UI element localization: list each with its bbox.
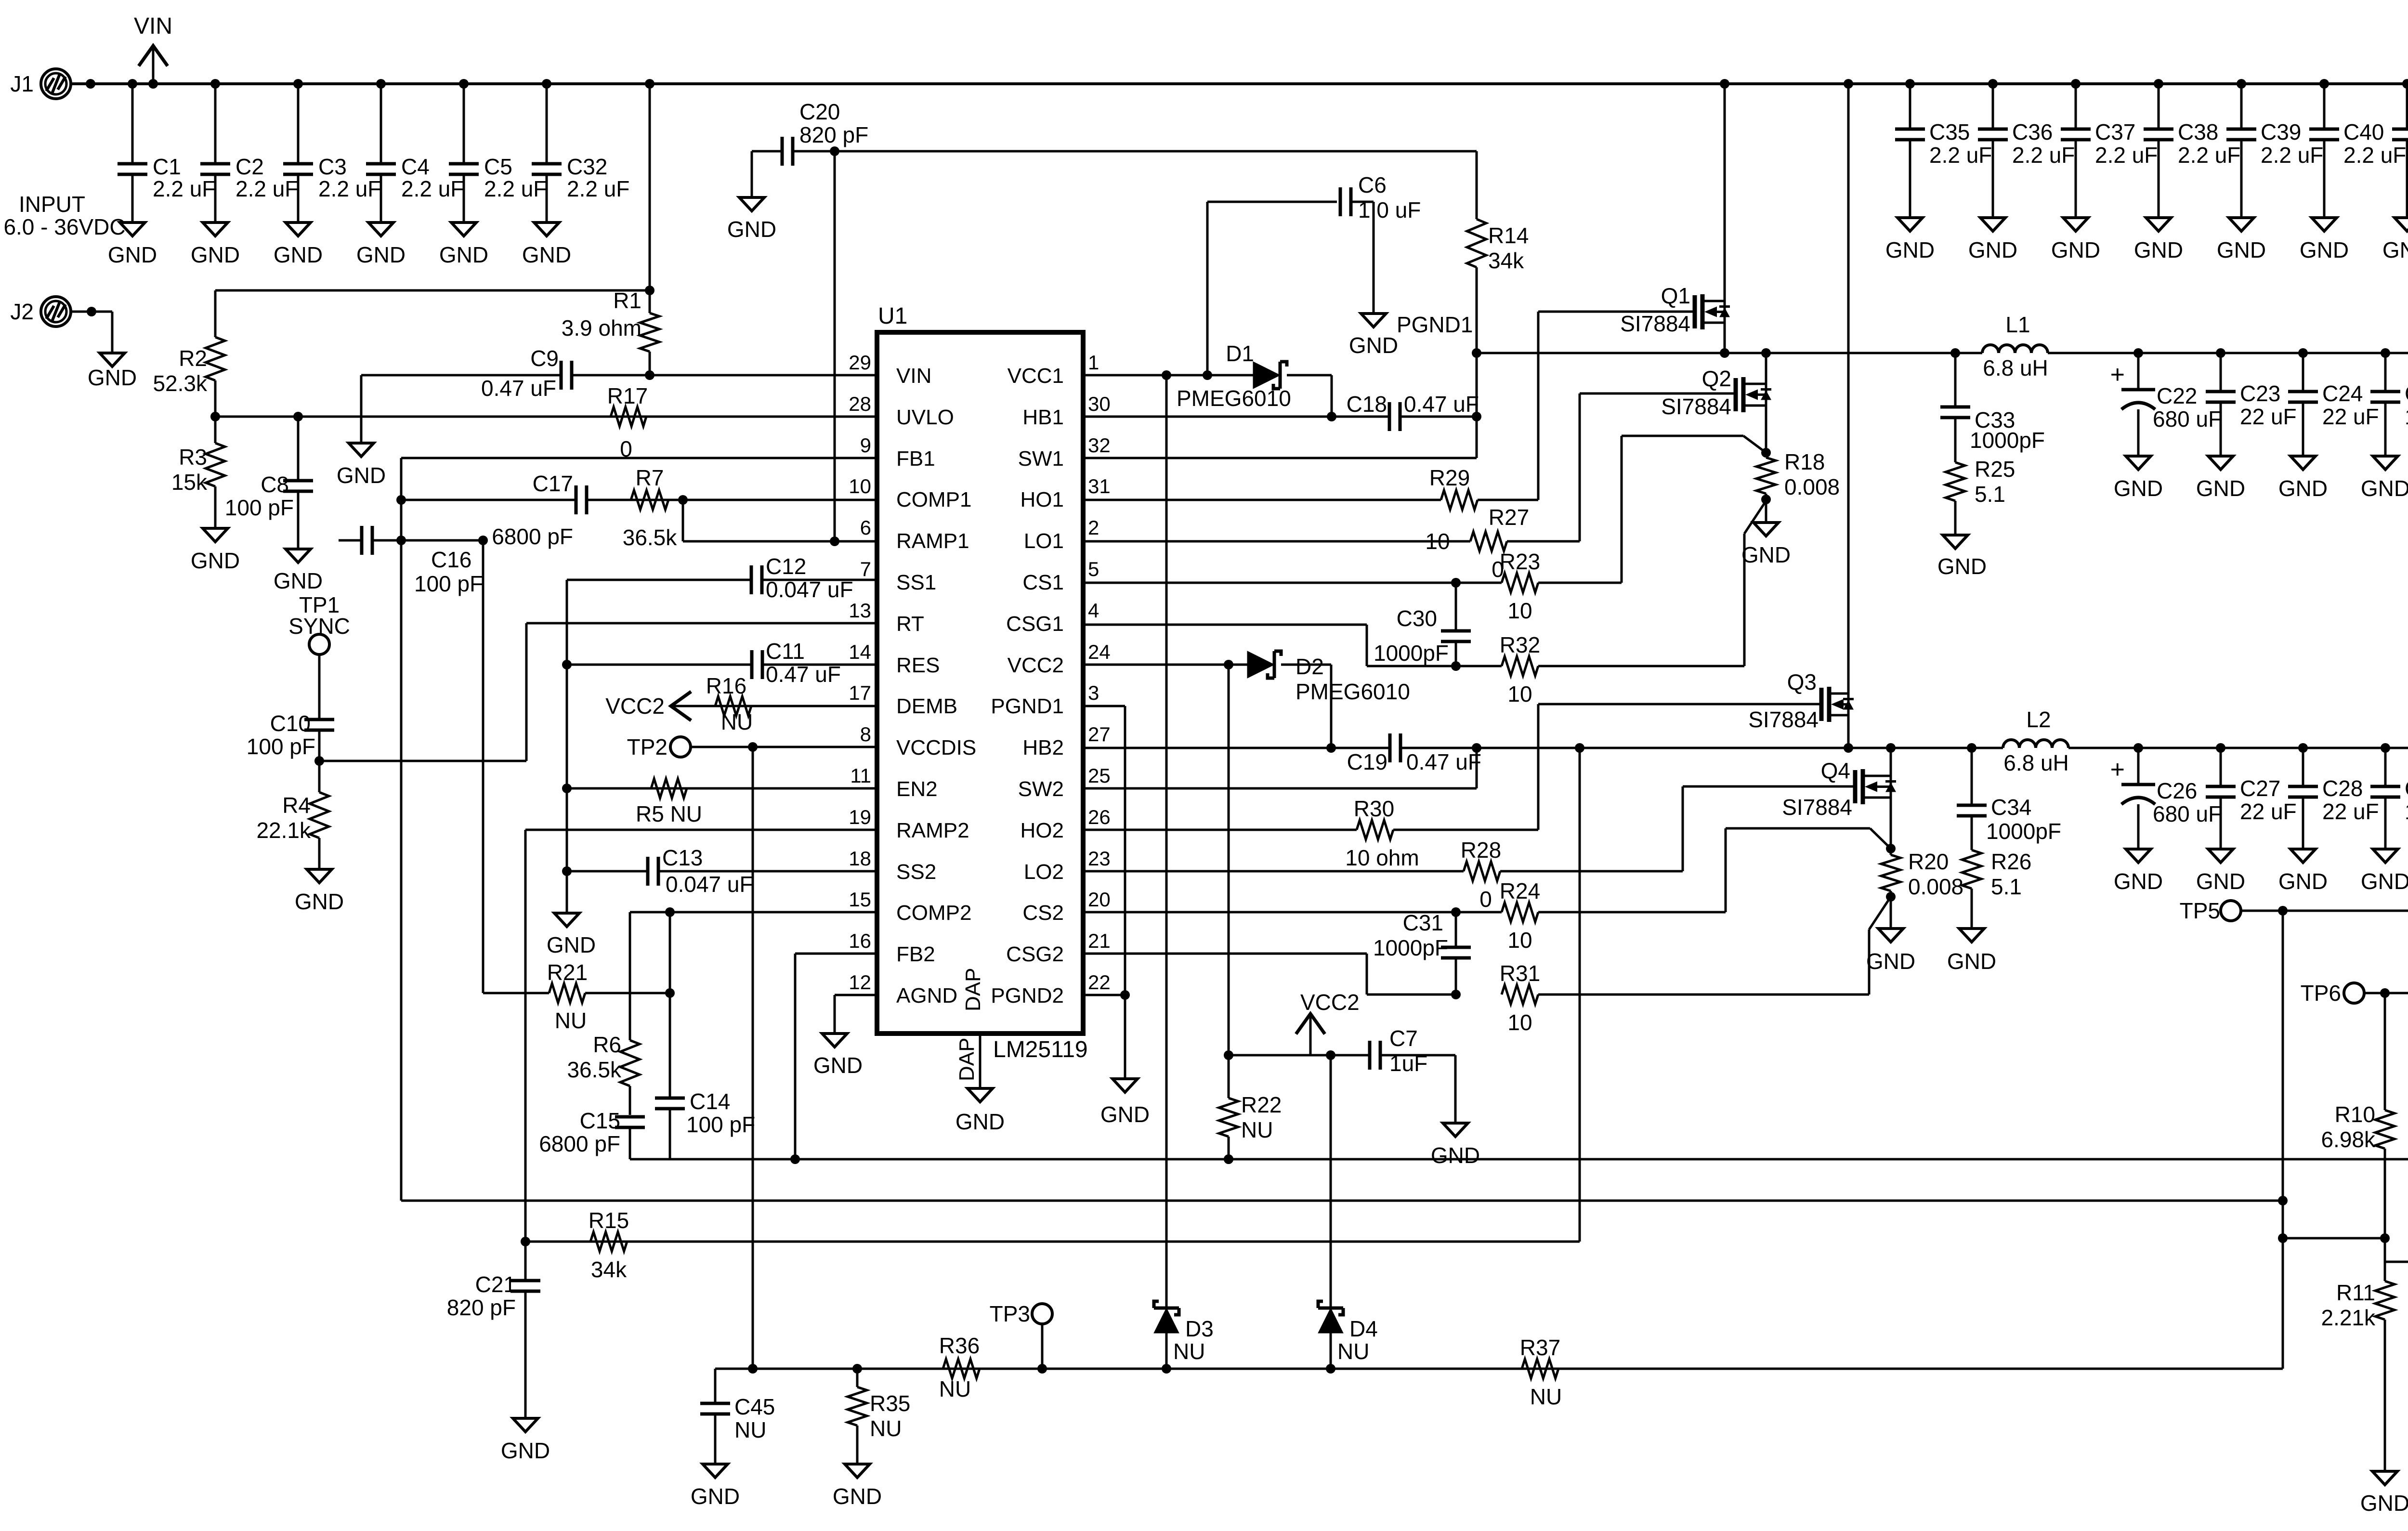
node C8 junction	[293, 412, 303, 421]
ground under C21	[501, 1418, 550, 1463]
node R14 bottom on SW1 node	[1472, 348, 1481, 358]
wire C23 lower	[2220, 402, 2222, 456]
svg-text:29: 29	[849, 351, 871, 374]
node TP2 drop bottom	[748, 1364, 758, 1374]
svg-text:GND: GND	[274, 242, 323, 267]
node SS2 on gnd rail	[562, 866, 572, 876]
svg-text:HB2: HB2	[1022, 736, 1064, 759]
svg-text:FB2: FB2	[896, 942, 935, 966]
svg-text:6.98k: 6.98k	[2321, 1127, 2376, 1152]
svg-text:680 uF: 680 uF	[2153, 801, 2222, 826]
svg-text:NU: NU	[734, 1417, 766, 1442]
resistor R23 10	[1500, 549, 1540, 623]
wire C16 line	[339, 539, 483, 542]
ground under R25	[1937, 535, 1987, 579]
wire C27 lower	[2220, 797, 2222, 849]
ground under C27	[2196, 849, 2245, 894]
svg-text:C38: C38	[2178, 119, 2218, 144]
wire CSG2 to R20 bottom	[1538, 897, 1891, 994]
node SW1 node C33	[1950, 348, 1960, 358]
svg-text:U1: U1	[878, 303, 907, 329]
svg-text:INPUT: INPUT	[19, 192, 85, 217]
ground under R35	[833, 1464, 882, 1509]
svg-text:C23: C23	[2240, 381, 2280, 406]
svg-text:26: 26	[1088, 806, 1111, 828]
wire Q2 drain	[1765, 353, 1767, 384]
svg-text:AGND: AGND	[896, 984, 957, 1008]
wire lineC ramp2 net	[525, 1241, 1580, 1243]
svg-text:C35: C35	[1929, 119, 1970, 144]
svg-text:18: 18	[849, 847, 871, 870]
wire C36 upper	[1992, 84, 1994, 129]
svg-text:3: 3	[1088, 681, 1099, 704]
transistor Q3 SI7884	[1748, 669, 1854, 732]
wire lineA FB2 net	[630, 1158, 2408, 1161]
svg-text:6.8 uH: 6.8 uH	[2003, 750, 2069, 775]
resistor R1 3.9 ohm	[562, 288, 659, 375]
wire RAMP2 drop	[524, 830, 527, 1242]
svg-text:2.21k: 2.21k	[2321, 1305, 2376, 1330]
wire C9 gnd stub	[360, 375, 363, 443]
svg-text:10: 10	[1507, 681, 1532, 707]
svg-text:GND: GND	[813, 1053, 863, 1078]
wire C22 lower	[2137, 409, 2140, 456]
node R20 top	[1886, 844, 1896, 853]
wire C32 lower lead	[546, 174, 548, 222]
ground PGND1 under C6	[1349, 312, 1473, 358]
node Q1 drain bus	[1720, 79, 1729, 89]
node R10 R11 joint	[2380, 1233, 2390, 1243]
resistor R15 34k	[589, 1208, 629, 1282]
svg-text:31: 31	[1088, 475, 1111, 497]
wire C39 lower	[2240, 140, 2243, 218]
node C3 top	[293, 79, 303, 89]
svg-text:VIN: VIN	[134, 13, 172, 39]
svg-text:C3: C3	[318, 154, 347, 179]
wire CSG2 jog	[1367, 954, 1456, 994]
wire Q4 source to R20	[1890, 798, 1892, 849]
ground under left rail	[547, 913, 596, 957]
svg-text:100 pF: 100 pF	[414, 571, 483, 596]
ground under C40	[2300, 218, 2349, 262]
capacitor C3 2.2 uF	[283, 154, 381, 201]
node R1 top on bus	[645, 79, 654, 89]
capacitor C31 1000pF	[1373, 910, 1471, 994]
wire AGND drop	[834, 995, 836, 1034]
svg-text:5.1: 5.1	[1975, 482, 2005, 507]
svg-text:R25: R25	[1975, 457, 2015, 482]
wire C21 lower	[524, 1291, 527, 1418]
wire EN2 line	[567, 787, 877, 790]
node C22 top	[2133, 348, 2143, 358]
resistor R11 2.21k	[2321, 1262, 2395, 1471]
svg-text:DAP: DAP	[961, 968, 985, 1011]
wire RAMP2 line	[525, 829, 877, 831]
wire C28 upper	[2302, 748, 2304, 786]
wire R11 upper	[2384, 1238, 2386, 1262]
wire lineB FB1 net	[401, 1200, 2283, 1202]
pin 8 VCCDIS name	[896, 736, 976, 759]
wire DEMB line	[671, 705, 877, 707]
node divider1 joint	[2278, 1233, 2288, 1243]
svg-text:PGND2: PGND2	[991, 984, 1064, 1008]
svg-text:C14: C14	[690, 1089, 730, 1114]
resistor R10 6.98k	[2321, 993, 2395, 1238]
pin 1 VCC1 name	[1008, 364, 1064, 388]
resistor R28 0	[1461, 837, 1501, 912]
diode D4 NU	[1318, 1301, 1378, 1364]
wire C28 lower	[2302, 797, 2304, 849]
svg-text:GND: GND	[1947, 949, 1996, 974]
svg-text:0.008: 0.008	[1908, 874, 1963, 899]
ground under C1	[108, 222, 157, 267]
pin 21 CSG2 number	[1088, 929, 1111, 952]
node C39 top	[2237, 79, 2246, 89]
wire C37 lower	[2075, 140, 2077, 218]
svg-text:0.47 uF: 0.47 uF	[1406, 749, 1481, 774]
svg-text:C7: C7	[1389, 1026, 1418, 1051]
node RES on gnd rail	[562, 660, 572, 669]
svg-text:NU: NU	[870, 1416, 902, 1441]
svg-text:HO1: HO1	[1021, 488, 1064, 511]
wire Q1 source to node	[1724, 323, 1726, 353]
svg-text:GND: GND	[833, 1484, 882, 1509]
wire C16 to R21 line	[482, 540, 484, 993]
svg-text:LO1: LO1	[1024, 529, 1064, 553]
node Q3 drain bus	[1844, 79, 1853, 89]
ground under C9	[337, 443, 386, 488]
wire CS2 line	[1083, 911, 1502, 914]
wire divider1 link	[2283, 1237, 2385, 1240]
svg-text:22 uF: 22 uF	[2322, 404, 2379, 429]
wire C38 upper	[2158, 84, 2160, 129]
svg-text:6.8 uH: 6.8 uH	[1983, 355, 2048, 380]
svg-text:GND: GND	[2278, 869, 2328, 894]
label INPUT	[19, 192, 85, 217]
svg-text:LO2: LO2	[1024, 860, 1064, 884]
wire C46 branch	[2385, 1262, 2408, 1279]
capacitor C38 2.2 uF	[2144, 119, 2240, 168]
svg-text:GND: GND	[1349, 333, 1398, 358]
svg-text:GND: GND	[2217, 237, 2266, 262]
svg-text:R4: R4	[282, 793, 311, 818]
svg-text:PMEG6010: PMEG6010	[1177, 386, 1291, 411]
node SW2 ramp drop	[1575, 743, 1584, 753]
pin 30 HB1 name	[1022, 406, 1064, 429]
node D4 bottom	[1326, 1364, 1335, 1374]
wire Q3 source	[1847, 715, 1850, 748]
svg-text:D1: D1	[1226, 341, 1254, 366]
capacitor C26 680 uF polarized	[2110, 756, 2222, 826]
svg-text:27: 27	[1088, 723, 1111, 746]
pin 8 VCCDIS number	[860, 723, 871, 746]
inductor L2 6.8 uH	[2003, 707, 2069, 775]
svg-text:6800 pF: 6800 pF	[492, 524, 573, 549]
svg-text:0: 0	[1479, 887, 1492, 912]
pin DAP label inside	[961, 968, 985, 1011]
pin 25 SW2 name	[1018, 777, 1064, 801]
testpoint TP3	[990, 1301, 1052, 1326]
wire C40 lower	[2323, 140, 2326, 218]
wire TP2 drop to NU line	[752, 747, 754, 1369]
svg-text:24: 24	[1088, 641, 1111, 663]
wire C29 upper	[2384, 748, 2387, 786]
wire RT jog	[525, 623, 528, 761]
node R35 top	[852, 1364, 862, 1374]
pin 11 EN2 name	[896, 777, 938, 801]
wire AGND stub	[835, 994, 877, 996]
wire SW1 jog up	[1476, 353, 1478, 458]
testpoint TP1 SYNC	[288, 592, 350, 654]
wire bottom NU line	[715, 1368, 2283, 1370]
wire Q2 source to R18	[1765, 406, 1767, 453]
pin 27 HB2 number	[1088, 723, 1111, 746]
node lineC ramp	[521, 1237, 530, 1246]
svg-text:PMEG6010: PMEG6010	[1296, 679, 1410, 704]
svg-text:2.2 uF: 2.2 uF	[318, 176, 381, 201]
pin 23 LO2 name	[1024, 860, 1064, 884]
capacitor C33 1000pF	[1940, 407, 2045, 453]
svg-text:C5: C5	[484, 154, 512, 179]
svg-text:GND: GND	[2051, 237, 2100, 262]
pin 19 RAMP2 number	[849, 806, 871, 828]
node FB1-C16	[396, 536, 406, 545]
ground under C39	[2217, 218, 2266, 262]
svg-text:R37: R37	[1520, 1335, 1560, 1360]
wire R20 to gnd	[1890, 897, 1892, 929]
svg-text:GND: GND	[522, 242, 571, 267]
svg-text:2.2 uF: 2.2 uF	[2178, 143, 2240, 168]
svg-text:RT: RT	[896, 612, 924, 636]
wire C6 right leg	[1351, 202, 1374, 314]
pin 26 HO2 name	[1021, 819, 1064, 842]
node C38 top	[2154, 79, 2163, 89]
pin 17 DEMB number	[849, 681, 871, 704]
svg-text:C8: C8	[261, 472, 289, 497]
svg-text:VIN: VIN	[896, 364, 931, 388]
pin 14 RES number	[849, 641, 871, 663]
node lineA R22	[1224, 1154, 1233, 1164]
svg-text:TP5: TP5	[2180, 898, 2220, 923]
svg-text:GND: GND	[88, 365, 137, 390]
node R1 top	[645, 286, 654, 295]
ground under C8	[274, 549, 323, 593]
pin 9 FB1 number	[860, 434, 871, 457]
svg-text:C1: C1	[153, 154, 181, 179]
node C10 R4	[314, 756, 324, 766]
wire top VIN bus	[71, 82, 2408, 85]
svg-text:R21: R21	[547, 960, 588, 985]
wire SW1 line	[1083, 457, 1477, 459]
svg-text:R31: R31	[1500, 961, 1540, 986]
resistor R32 10	[1500, 632, 1540, 707]
wire VCC2 drop2	[1228, 665, 1230, 1055]
svg-text:7: 7	[860, 558, 871, 580]
svg-text:C11: C11	[766, 639, 805, 664]
svg-text:2.2 uF: 2.2 uF	[236, 176, 298, 201]
wire C24 upper	[2302, 353, 2304, 392]
wire gnd rail left	[566, 580, 568, 913]
wire C5 lower lead	[463, 174, 465, 222]
inductor L1 6.8 uH	[1982, 312, 2048, 380]
wire C1 lower lead	[131, 174, 134, 222]
node C20 right	[830, 146, 839, 156]
wire C20 to RAMP1 pin	[834, 151, 836, 541]
svg-text:GND: GND	[1885, 237, 1935, 262]
svg-text:NU: NU	[939, 1376, 971, 1401]
wire TP3 stem	[1041, 1324, 1044, 1369]
svg-text:6.0 - 36VDC: 6.0 - 36VDC	[3, 214, 125, 239]
wire C38 lower	[2158, 140, 2160, 218]
pin 15 COMP2 name	[896, 901, 971, 925]
node R22 top	[1224, 1050, 1233, 1060]
capacitor C7 1uF	[1370, 1026, 1427, 1076]
svg-text:820 pF: 820 pF	[799, 122, 868, 147]
node VCC2 pin drop2	[1224, 660, 1233, 669]
svg-text:4: 4	[1088, 599, 1099, 622]
wire C22 upper	[2137, 353, 2140, 390]
pin 2 LO1 number	[1088, 516, 1099, 539]
svg-text:C17: C17	[533, 471, 573, 496]
svg-text:TP6: TP6	[2301, 981, 2341, 1006]
node COMP2-C14	[665, 907, 675, 917]
svg-text:TP2: TP2	[627, 734, 667, 759]
ground under C2	[191, 222, 240, 267]
capacitor C22 680 uF polarized	[2110, 361, 2222, 432]
pin 9 FB1 name	[896, 447, 935, 471]
svg-text:C31: C31	[1403, 910, 1443, 935]
wire TP5 line	[2241, 910, 2408, 912]
svg-text:10 ohm: 10 ohm	[1345, 845, 1419, 870]
capacitor C25 1.0 uF	[2370, 381, 2408, 429]
ground under AGND	[813, 1034, 863, 1078]
svg-text:SI7884: SI7884	[1748, 707, 1819, 732]
svg-text:R18: R18	[1784, 449, 1825, 474]
svg-text:C27: C27	[2240, 776, 2280, 801]
svg-text:0.47 uF: 0.47 uF	[766, 662, 841, 687]
wire CS2 to R20	[1538, 828, 1891, 912]
svg-text:C40: C40	[2343, 119, 2384, 144]
svg-text:820 pF: 820 pF	[447, 1295, 516, 1320]
svg-text:GND: GND	[274, 568, 323, 593]
pin 10 COMP1 number	[849, 475, 871, 497]
svg-text:1.0 uF: 1.0 uF	[2405, 404, 2408, 429]
svg-text:10: 10	[1507, 928, 1532, 953]
node FB1 lineB joint	[2278, 1196, 2288, 1205]
svg-text:D3: D3	[1185, 1316, 1214, 1341]
svg-text:NU: NU	[1337, 1339, 1369, 1364]
capacitor C8 100 pF	[225, 472, 313, 520]
svg-text:3.9 ohm: 3.9 ohm	[562, 315, 641, 340]
ground under DAP	[955, 1088, 1005, 1134]
wire SS2 line	[567, 870, 877, 873]
svg-text:Q2: Q2	[1702, 366, 1731, 391]
power flag VIN	[134, 13, 172, 84]
resistor R16 NU	[706, 673, 753, 734]
node Q4 drain	[1886, 743, 1896, 753]
wire C41 lower	[2406, 140, 2408, 218]
wire C5 upper lead	[463, 84, 465, 164]
svg-text:C45: C45	[734, 1394, 775, 1419]
capacitor C34 1000pF	[1957, 795, 2061, 844]
node J2 wire	[87, 307, 96, 316]
wire C27 upper	[2220, 748, 2222, 786]
svg-text:SW1: SW1	[1018, 447, 1064, 471]
capacitor C10 100 pF	[247, 711, 334, 759]
pin 24 VCC2 name	[1008, 654, 1064, 677]
svg-text:CS2: CS2	[1022, 901, 1064, 925]
svg-text:GND: GND	[356, 242, 406, 267]
node C40 top	[2319, 79, 2329, 89]
capacitor C4 2.2 uF	[366, 154, 464, 201]
wire D1 cathode	[1287, 375, 1332, 417]
capacitor C11 0.47 uF	[752, 639, 841, 687]
wire C45 lower	[714, 1414, 717, 1464]
node C32 top	[542, 79, 551, 89]
capacitor C2 2.2 uF	[200, 154, 298, 201]
svg-text:NU: NU	[721, 709, 753, 734]
svg-text:R20: R20	[1908, 849, 1949, 874]
wire R1 from bus	[649, 84, 651, 290]
svg-text:GND: GND	[547, 932, 596, 957]
node CS2-C31	[1451, 907, 1461, 917]
wire RES line	[567, 664, 877, 666]
ground under C23	[2196, 456, 2245, 501]
ground under C38	[2134, 218, 2183, 262]
pin 23 LO2 number	[1088, 847, 1111, 870]
svg-text:2.2 uF: 2.2 uF	[1929, 143, 1992, 168]
ground under R11	[2360, 1471, 2408, 1516]
svg-text:DEMB: DEMB	[896, 694, 957, 718]
ground under C3	[274, 222, 323, 267]
transistor Q2 SI7884	[1661, 366, 1771, 419]
wire C10 line	[319, 760, 526, 762]
svg-text:R35: R35	[870, 1391, 910, 1416]
node C31 bottom	[1451, 990, 1461, 999]
svg-text:10: 10	[1507, 1010, 1532, 1035]
ground under C7	[1431, 1123, 1480, 1168]
node CS1-C30	[1451, 578, 1461, 588]
svg-text:Q4: Q4	[1821, 758, 1850, 783]
ground under C25	[2361, 456, 2408, 501]
node SW1 node Q1	[1720, 348, 1729, 358]
wire PGND2 stub	[1083, 994, 1125, 996]
capacitor C12 0.047 uF	[751, 554, 853, 602]
svg-text:2.2 uF: 2.2 uF	[484, 176, 547, 201]
svg-text:J1: J1	[10, 71, 34, 96]
ground under C37	[2051, 218, 2100, 262]
wire C10 to node	[318, 730, 321, 761]
wire C35 upper	[1909, 84, 1911, 129]
node VCC1 drop	[1162, 370, 1171, 380]
pin 24 VCC2 number	[1088, 641, 1111, 663]
svg-text:C12: C12	[766, 554, 806, 579]
svg-text:+: +	[2110, 361, 2125, 389]
svg-text:14: 14	[849, 641, 871, 663]
svg-text:R36: R36	[939, 1333, 980, 1358]
svg-text:UVLO: UVLO	[896, 406, 954, 429]
svg-text:22 uF: 22 uF	[2322, 799, 2379, 824]
node R21-C14	[665, 988, 675, 998]
pin DAP stub	[979, 1034, 982, 1088]
wire C35 lower	[1909, 140, 1911, 218]
node C6 left	[1203, 370, 1212, 380]
node C1 top	[128, 79, 137, 89]
wire C3 lower lead	[297, 174, 300, 222]
node C35 top	[1905, 79, 1915, 89]
testpoint TP6	[2301, 981, 2364, 1006]
pin 20 CS2 name	[1022, 901, 1064, 925]
